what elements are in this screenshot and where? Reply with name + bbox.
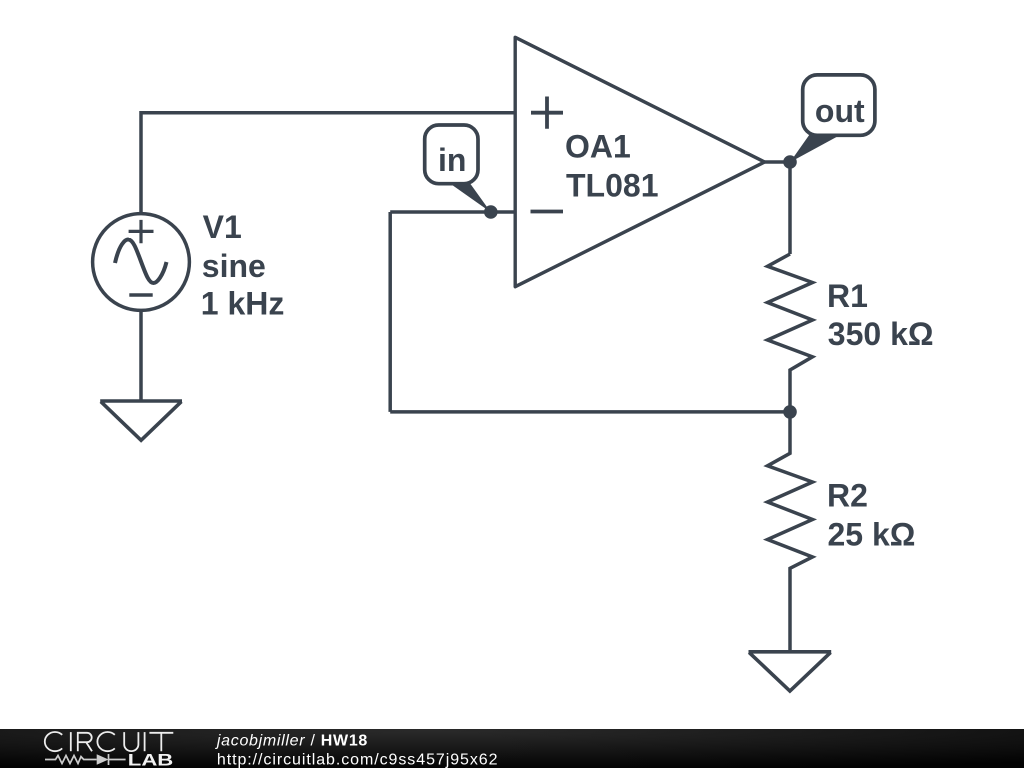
- svg-text:V1: V1: [203, 209, 242, 245]
- resistor R1: [768, 254, 813, 412]
- wire: op-amp output to out node: [765, 160, 790, 164]
- ground (R2): [749, 652, 832, 691]
- CircuitLab logo: diode triangle: [97, 754, 109, 765]
- op-amp + input symbol: [531, 97, 563, 129]
- wire: out node down to R1: [788, 162, 792, 254]
- node dot: output (out): [783, 155, 797, 169]
- footer bar: [0, 729, 1024, 768]
- node flag box (out): [803, 75, 875, 135]
- wire: inverting input: [390, 210, 515, 214]
- node flag pointer (in): [447, 181, 491, 212]
- svg-text:sine: sine: [202, 248, 266, 284]
- voltage source V1: [93, 214, 190, 311]
- node flag pointer (out): [790, 131, 842, 162]
- wire: V1 minus terminal to ground: [139, 310, 143, 401]
- resistor R2: [768, 412, 813, 652]
- wire: V1 plus terminal up and across to op-amp non-inverting input: [141, 113, 515, 213]
- svg-text:1 kHz: 1 kHz: [201, 286, 285, 322]
- svg-text:R1: R1: [827, 278, 868, 314]
- op-amp - input symbol: [531, 210, 564, 214]
- node dot: inverting input (in): [484, 205, 498, 219]
- svg-text:jacobjmiller / HW18: jacobjmiller / HW18: [215, 732, 368, 749]
- wire: feedback horizontal to divider node: [390, 410, 790, 414]
- svg-text:out: out: [815, 93, 865, 129]
- svg-text:R2: R2: [827, 478, 868, 514]
- svg-text:OA1: OA1: [565, 129, 631, 165]
- svg-text:TL081: TL081: [566, 168, 658, 204]
- CircuitLab logo: resistor-diode squiggle: [45, 754, 126, 765]
- svg-text:350 kΩ: 350 kΩ: [828, 316, 934, 352]
- wire: feedback vertical: [388, 212, 392, 412]
- svg-text:in: in: [438, 142, 466, 178]
- CircuitLab logo: CIRCUIT wordmark: [45, 732, 173, 751]
- op-amp OA1 triangle: [515, 37, 764, 286]
- node flag box (in): [425, 125, 478, 184]
- ground (V1): [100, 401, 182, 440]
- svg-text:LAB: LAB: [128, 752, 174, 768]
- junction node dot: R1/R2 divider: [783, 405, 797, 419]
- svg-text:25 kΩ: 25 kΩ: [828, 516, 916, 552]
- svg-text:http://circuitlab.com/c9ss457j: http://circuitlab.com/c9ss457j95x62: [217, 751, 499, 768]
